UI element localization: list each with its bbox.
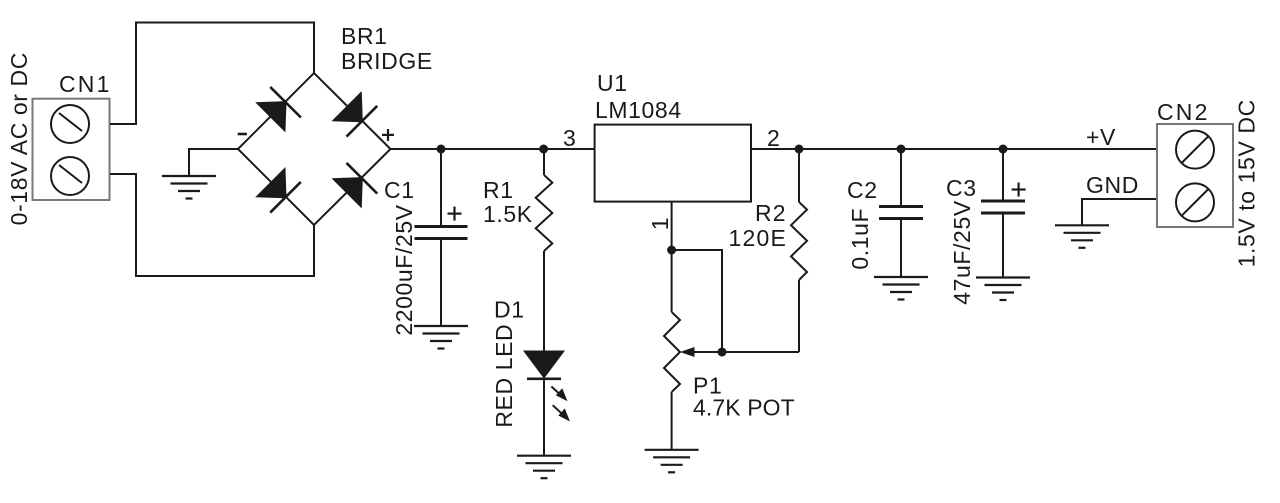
bridge BR1 diamond xyxy=(238,73,391,225)
potentiometer P1 xyxy=(664,312,680,392)
svg-text:RED LED: RED LED xyxy=(491,324,517,428)
svg-text:BRIDGE: BRIDGE xyxy=(341,48,433,74)
junction node ADJ xyxy=(667,246,676,255)
ground D1 xyxy=(517,456,571,479)
capacitor C1 xyxy=(440,149,442,225)
junction node R1 xyxy=(539,145,548,154)
resistor R2 xyxy=(798,149,800,202)
capacitor C2 xyxy=(900,149,902,205)
ground C1 xyxy=(414,326,468,349)
svg-text:0.1uF: 0.1uF xyxy=(847,208,873,270)
CN2 screw terminal top xyxy=(1176,131,1214,169)
svg-text:0-18V AC or DC: 0-18V AC or DC xyxy=(6,52,32,225)
connector CN2 xyxy=(1157,124,1233,227)
svg-text:LM1084: LM1084 xyxy=(595,97,682,123)
svg-text:CN2: CN2 xyxy=(1157,99,1210,125)
C1 plus sign xyxy=(448,207,462,221)
ground bridge xyxy=(162,176,216,199)
svg-text:U1: U1 xyxy=(597,70,628,96)
junction node C2 xyxy=(897,145,906,154)
svg-text:C2: C2 xyxy=(847,177,878,203)
ground CN2 xyxy=(1055,225,1109,248)
svg-text:GND: GND xyxy=(1086,172,1139,198)
CN1 screw terminal bottom xyxy=(51,157,89,195)
diode BR1 bottom-right xyxy=(334,163,377,206)
junction node C1 xyxy=(437,145,446,154)
CN2 screw terminal bottom xyxy=(1176,183,1214,221)
wire bridge left corner to ground xyxy=(189,149,238,176)
svg-text:+V: +V xyxy=(1086,124,1116,150)
connector CN1 xyxy=(33,99,110,200)
junction node R2 xyxy=(795,145,804,154)
wire U1 output rail xyxy=(751,148,1157,150)
LED D1 xyxy=(525,352,563,378)
wire CN1 top terminal to loop xyxy=(110,23,314,125)
diode BR1 top-right xyxy=(334,93,377,136)
svg-text:120E: 120E xyxy=(729,225,788,251)
ground C3 xyxy=(976,278,1030,301)
wire CN1 bottom terminal to loop xyxy=(110,174,314,276)
svg-text:D1: D1 xyxy=(494,297,525,323)
svg-text:CN1: CN1 xyxy=(59,71,112,97)
svg-text:1: 1 xyxy=(647,217,673,230)
wire main rail bridge to U1 xyxy=(391,148,595,150)
bridge minus sign xyxy=(238,133,247,136)
svg-text:BR1: BR1 xyxy=(341,23,388,49)
diode BR1 top-left xyxy=(258,87,301,130)
junction node C3 xyxy=(999,145,1008,154)
ground C2 xyxy=(874,277,928,300)
wire ADJ branch xyxy=(672,250,722,352)
svg-text:1.5V to 15V DC: 1.5V to 15V DC xyxy=(1234,99,1260,267)
svg-text:1.5K: 1.5K xyxy=(483,201,533,227)
P1 wiper arrow xyxy=(693,351,722,353)
CN1 screw terminal top xyxy=(51,105,89,143)
svg-text:C3: C3 xyxy=(946,175,977,201)
capacitor C3 xyxy=(1002,149,1004,200)
diode BR1 bottom-left xyxy=(258,169,301,212)
wire wiper to R2 xyxy=(722,351,799,353)
svg-text:2200uF/25V: 2200uF/25V xyxy=(391,204,417,335)
svg-text:C1: C1 xyxy=(384,177,415,203)
wire U1 pin 1 xyxy=(671,202,673,312)
svg-text:4.7K POT: 4.7K POT xyxy=(693,395,795,421)
D1 emission arrows xyxy=(551,387,570,422)
bridge plus sign xyxy=(382,129,394,141)
op-amp U1 regulator body xyxy=(595,125,751,202)
wire CN2 GND xyxy=(1082,199,1157,225)
svg-text:47uF/25V: 47uF/25V xyxy=(949,200,975,305)
ground P1 xyxy=(645,450,699,473)
svg-text:R2: R2 xyxy=(755,200,787,226)
resistor R1 xyxy=(543,149,545,175)
C3 plus sign xyxy=(1012,183,1026,197)
svg-text:R1: R1 xyxy=(483,177,514,203)
svg-text:2: 2 xyxy=(767,125,780,151)
svg-text:3: 3 xyxy=(563,125,576,151)
junction node wiper xyxy=(718,348,727,357)
